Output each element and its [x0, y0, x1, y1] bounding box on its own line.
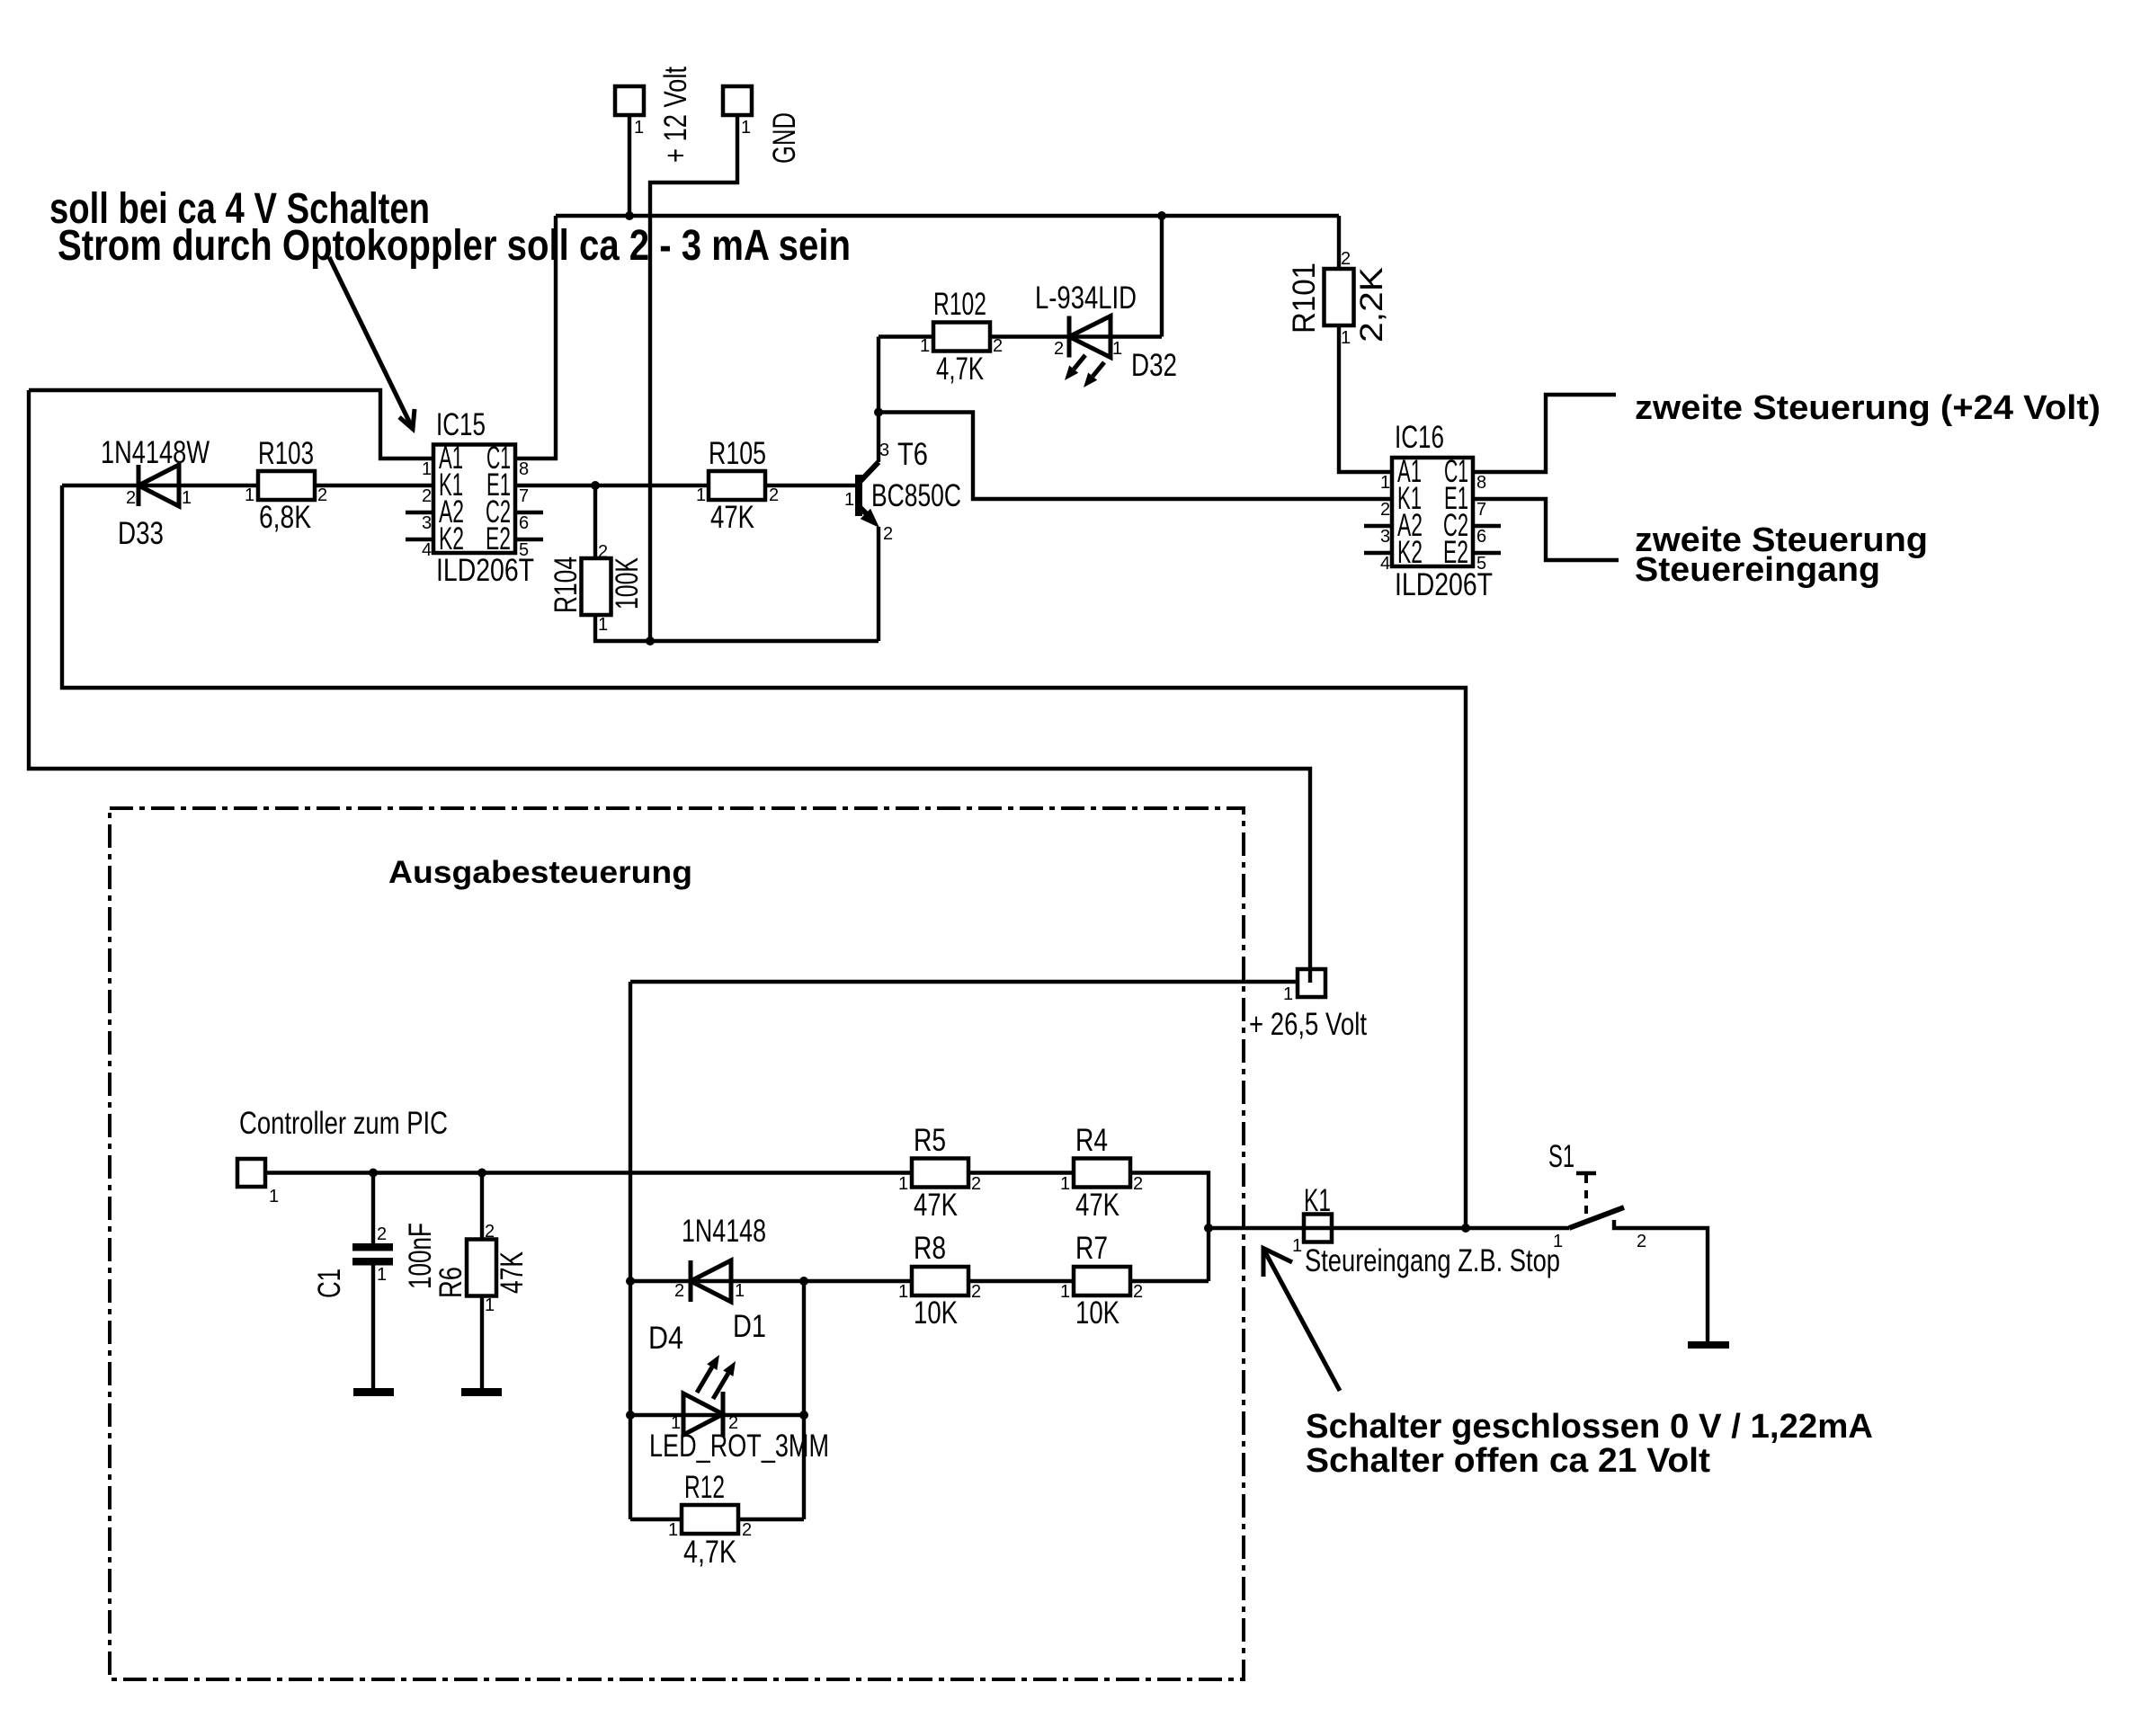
svg-text:1: 1 — [245, 485, 254, 505]
svg-text:R6: R6 — [433, 1267, 468, 1298]
svg-text:2: 2 — [728, 1413, 738, 1433]
svg-text:2: 2 — [883, 524, 893, 544]
svg-text:E2: E2 — [1443, 535, 1468, 570]
svg-text:6,8K: 6,8K — [259, 500, 311, 535]
svg-text:LED_ROT_3MM: LED_ROT_3MM — [649, 1429, 829, 1464]
svg-text:1: 1 — [696, 485, 706, 505]
svg-text:8: 8 — [1476, 473, 1486, 493]
svg-text:1: 1 — [422, 459, 432, 479]
svg-text:2: 2 — [742, 1520, 752, 1540]
svg-text:1: 1 — [1060, 1282, 1070, 1302]
svg-text:R4: R4 — [1075, 1123, 1108, 1158]
svg-text:1: 1 — [1112, 339, 1122, 359]
svg-text:R101: R101 — [1287, 263, 1322, 334]
svg-text:2: 2 — [377, 1224, 387, 1244]
svg-text:2: 2 — [971, 1174, 981, 1194]
svg-text:1: 1 — [898, 1282, 908, 1302]
svg-text:1: 1 — [741, 118, 751, 138]
svg-text:1: 1 — [844, 490, 854, 510]
svg-text:2: 2 — [126, 488, 136, 508]
svg-text:6: 6 — [1476, 527, 1486, 547]
svg-text:2: 2 — [674, 1281, 684, 1301]
svg-text:+ 26,5 Volt: + 26,5 Volt — [1249, 1007, 1367, 1042]
svg-text:4,7K: 4,7K — [936, 352, 984, 387]
svg-text:Ausgabesteuerung: Ausgabesteuerung — [388, 855, 692, 890]
svg-text:1: 1 — [671, 1413, 681, 1433]
svg-text:1: 1 — [377, 1265, 387, 1285]
svg-text:47K: 47K — [914, 1188, 958, 1223]
svg-text:C1: C1 — [312, 1269, 347, 1298]
svg-text:1: 1 — [1060, 1174, 1070, 1194]
svg-text:47K: 47K — [710, 500, 754, 535]
svg-text:R8: R8 — [914, 1231, 946, 1266]
svg-text:1: 1 — [634, 118, 644, 138]
svg-text:7: 7 — [519, 486, 529, 506]
svg-text:S1: S1 — [1548, 1139, 1574, 1174]
svg-text:2: 2 — [971, 1282, 981, 1302]
svg-text:Schalter geschlossen 0 V / 1,2: Schalter geschlossen 0 V / 1,22mA — [1306, 1408, 1873, 1446]
svg-text:2: 2 — [422, 486, 432, 506]
svg-text:2: 2 — [1133, 1174, 1143, 1194]
svg-text:1: 1 — [1341, 328, 1351, 348]
svg-text:IC15: IC15 — [436, 407, 486, 442]
svg-text:T6: T6 — [897, 437, 928, 472]
svg-text:BC850C: BC850C — [871, 478, 961, 513]
svg-text:R105: R105 — [709, 436, 766, 471]
svg-text:R7: R7 — [1075, 1231, 1108, 1266]
svg-text:K1: K1 — [1304, 1183, 1331, 1218]
svg-text:1: 1 — [920, 336, 930, 356]
svg-text:Strom durch Optokoppler soll c: Strom durch Optokoppler soll ca 2 - 3 mA… — [58, 222, 851, 270]
svg-text:L-934LID: L-934LID — [1035, 280, 1137, 316]
svg-text:1: 1 — [182, 488, 192, 508]
svg-text:E2: E2 — [486, 521, 511, 556]
svg-text:4: 4 — [422, 540, 432, 560]
svg-text:Controller zum PIC: Controller zum PIC — [239, 1106, 448, 1141]
svg-text:IC16: IC16 — [1395, 420, 1444, 455]
svg-text:GND: GND — [767, 112, 802, 164]
svg-text:47K: 47K — [1075, 1188, 1120, 1223]
svg-text:47K: 47K — [495, 1251, 530, 1294]
svg-text:2,2K: 2,2K — [1354, 267, 1389, 343]
svg-text:3: 3 — [879, 441, 889, 460]
svg-text:2: 2 — [598, 542, 608, 562]
svg-text:1: 1 — [485, 1295, 495, 1315]
svg-text:1: 1 — [898, 1174, 908, 1194]
svg-text:2: 2 — [317, 485, 327, 505]
svg-text:2: 2 — [1637, 1232, 1646, 1251]
svg-text:D1: D1 — [733, 1309, 766, 1344]
svg-text:10K: 10K — [1075, 1295, 1120, 1331]
svg-text:R12: R12 — [684, 1470, 725, 1505]
svg-text:5: 5 — [1476, 554, 1486, 574]
svg-text:Steureingang Z.B. Stop: Steureingang Z.B. Stop — [1305, 1243, 1560, 1278]
svg-text:2: 2 — [769, 485, 779, 505]
svg-text:K2: K2 — [439, 521, 464, 556]
svg-text:100K: 100K — [610, 557, 645, 610]
svg-text:R103: R103 — [258, 436, 314, 471]
svg-text:2: 2 — [1133, 1282, 1143, 1302]
svg-text:2: 2 — [993, 336, 1003, 356]
svg-text:10K: 10K — [914, 1295, 958, 1331]
svg-text:6: 6 — [519, 513, 529, 533]
svg-text:R5: R5 — [914, 1123, 946, 1158]
svg-text:R104: R104 — [549, 556, 584, 613]
svg-text:zweite Steuerung (+24 Volt): zweite Steuerung (+24 Volt) — [1635, 389, 2101, 427]
svg-text:1: 1 — [269, 1187, 279, 1206]
svg-text:1: 1 — [1283, 984, 1293, 1004]
svg-text:2: 2 — [485, 1222, 495, 1242]
svg-text:7: 7 — [1476, 500, 1486, 520]
svg-text:2: 2 — [1341, 249, 1351, 269]
svg-text:3: 3 — [422, 513, 432, 533]
svg-text:K2: K2 — [1397, 535, 1423, 570]
svg-text:Schalter offen ca 21 Volt: Schalter offen ca 21 Volt — [1306, 1442, 1710, 1480]
svg-text:1: 1 — [1292, 1236, 1302, 1256]
svg-text:5: 5 — [519, 540, 529, 560]
svg-text:4,7K: 4,7K — [683, 1535, 736, 1570]
svg-text:D4: D4 — [648, 1321, 683, 1356]
svg-text:D32: D32 — [1131, 348, 1177, 383]
svg-text:3: 3 — [1380, 527, 1390, 547]
svg-text:+ 12 Volt: + 12 Volt — [658, 67, 693, 163]
svg-text:D33: D33 — [118, 516, 164, 551]
svg-text:1: 1 — [598, 615, 608, 635]
svg-text:Steuereingang: Steuereingang — [1635, 551, 1880, 589]
svg-text:8: 8 — [519, 459, 529, 479]
svg-text:1N4148W: 1N4148W — [101, 435, 210, 470]
svg-text:4: 4 — [1380, 554, 1390, 574]
svg-text:R102: R102 — [933, 287, 986, 322]
svg-text:2: 2 — [1380, 500, 1390, 520]
svg-text:1: 1 — [1380, 473, 1390, 493]
svg-text:1N4148: 1N4148 — [682, 1214, 766, 1249]
svg-text:1: 1 — [668, 1520, 678, 1540]
svg-text:1: 1 — [735, 1281, 745, 1301]
svg-text:2: 2 — [1054, 339, 1064, 359]
svg-text:1: 1 — [1553, 1232, 1563, 1251]
